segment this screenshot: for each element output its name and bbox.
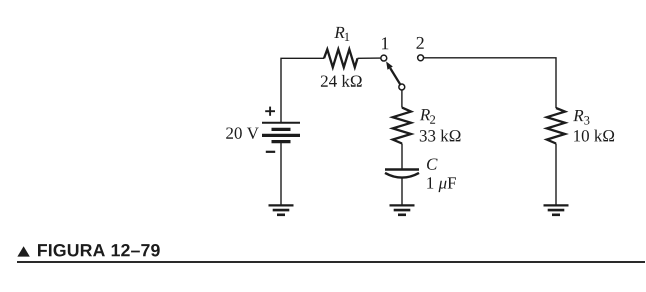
ground symbol (battery branch) [269,205,294,214]
battery 20 V plates [262,123,300,142]
label R3 [573,110,589,125]
value label 1 uF [427,177,456,192]
wire: switch pivot down to R2 [401,90,403,108]
switch contact 2 circle [418,55,424,61]
wire: capacitor to ground [401,178,403,205]
wire: battery positive terminal up and right to R1 [281,58,324,122]
resistor R3 zigzag [547,108,565,144]
wire: contact 2 right and down to R3 [424,58,557,108]
figure caption text FIGURA 12-79 [38,244,160,257]
ground symbol (R3 branch) [544,205,569,214]
wire: R2 to capacitor C [401,144,403,169]
switch arm with arrowhead pointing to contact 1 [386,61,401,85]
ground symbol (capacitor branch) [390,205,415,214]
wire: battery negative terminal to ground [280,142,282,205]
label C [427,158,438,169]
value label 24 kOhm [321,75,362,87]
resistor R2 zigzag [393,108,411,144]
wire: R3 to ground [555,144,557,206]
value label 33 kOhm [420,130,461,142]
switch pivot circle [399,84,405,90]
capacitor C plates [385,170,419,178]
resistor R1 zigzag [324,49,358,67]
label R1 [334,27,349,41]
wire: R1 to switch contact 1 [358,57,381,59]
figure caption triangle marker [17,246,29,256]
battery plus sign [265,107,275,116]
battery minus sign [266,151,275,153]
value label 10 kOhm [574,130,614,142]
switch contact 1 circle [381,55,387,61]
node label 2 [417,37,424,49]
value label 20 V [226,127,259,139]
label R2 [420,109,435,124]
caption rule line [17,261,645,263]
node label 1 [382,37,388,49]
